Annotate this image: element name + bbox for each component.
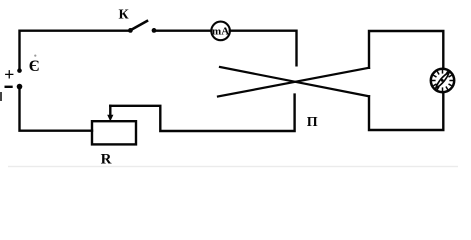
svg-text:Є: Є: [29, 58, 40, 75]
svg-text:П: П: [307, 115, 318, 130]
svg-text:mA: mA: [212, 26, 229, 38]
svg-text:К: К: [119, 8, 130, 23]
svg-text:R: R: [101, 151, 112, 167]
svg-text:+: +: [4, 64, 14, 84]
